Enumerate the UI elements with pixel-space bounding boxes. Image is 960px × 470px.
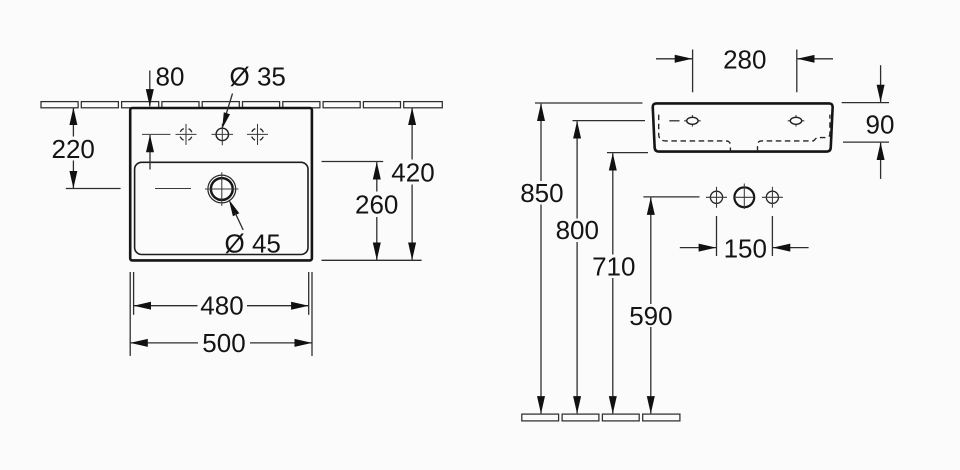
dimension 150 [680,216,809,256]
svg-text:480: 480 [200,291,243,321]
washbasin outer outline (top view) [130,108,312,260]
hidden faucet centerline dash (front view) [669,120,679,122]
dimension 420 [322,108,422,260]
dimension 500 [130,272,312,356]
drain hole Ø45 (top view) [205,172,239,206]
tap hole center (front view) [734,184,754,210]
svg-text:280: 280 [723,45,766,75]
wall fixing hole right (front view) [762,187,783,208]
faucet hole right (optional, dashed circle) [247,124,268,145]
dimension 260 [322,162,384,260]
wall fixing hole left (front view) [706,187,727,208]
faucet hole oval right (front view) [788,115,805,127]
dimension 280 [656,50,833,93]
wall hatching (left view) [41,102,442,108]
dimension 850 [535,103,643,413]
svg-text:260: 260 [355,190,398,220]
dimension 220 [66,108,121,189]
dimension 710 [607,153,648,414]
hidden interior right part (front view, dashed) [758,115,830,152]
floor hatching (front view) [522,414,680,421]
basin inner rim (top view) [135,162,308,254]
svg-text:80: 80 [156,61,185,91]
leader line Ø45 [229,200,243,231]
svg-text:710: 710 [592,251,635,281]
faucet hole left (optional, dashed circle) [176,124,197,145]
faucet hole center Ø35 [212,124,234,146]
faucet hole oval left (front view) [684,115,701,127]
svg-text:850: 850 [520,178,563,208]
dimension 800 [573,121,646,414]
svg-text:Ø 35: Ø 35 [230,61,286,91]
svg-text:90: 90 [866,109,895,139]
washbasin body outline (front view) [653,103,833,151]
dimension 480 [134,272,309,317]
dimension 90 [842,65,889,179]
dimension 590 [643,197,699,414]
svg-text:220: 220 [52,134,95,164]
drain centerline segment inside basin [155,188,191,190]
svg-text:Ø 45: Ø 45 [225,229,281,259]
svg-text:800: 800 [556,215,599,245]
faucet centerline tick [142,133,171,135]
dimension 80 [149,71,151,170]
leader line Ø35 [222,94,232,129]
svg-text:150: 150 [724,234,767,264]
svg-text:500: 500 [202,328,245,358]
svg-text:420: 420 [391,157,434,187]
hidden interior left+bottom (front view, dashed) [659,115,731,152]
svg-text:590: 590 [629,301,672,331]
